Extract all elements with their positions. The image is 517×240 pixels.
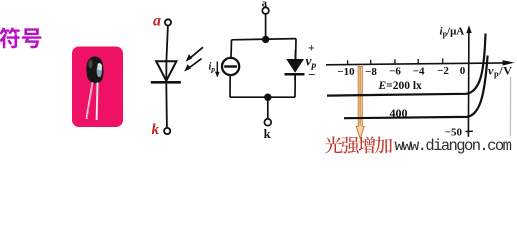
svg-text:k: k bbox=[152, 122, 160, 138]
label 光强增加 (light intensity increases) red bbox=[325, 136, 393, 153]
light intensity increase arrow (orange) bbox=[356, 67, 364, 139]
svg-text:a: a bbox=[262, 0, 268, 10]
x axis vp/V bbox=[326, 25, 515, 137]
leads bbox=[87, 83, 93, 120]
curve 400 bbox=[344, 56, 488, 119]
label 符号 (title "Symbol") bbox=[0, 28, 41, 49]
y axis ip/uA bbox=[467, 29, 470, 137]
svg-text:0: 0 bbox=[460, 65, 466, 77]
photodiode component photo (pink card) bbox=[72, 47, 123, 128]
junction dot top bbox=[262, 36, 269, 43]
photodiode symbol bbox=[151, 19, 181, 134]
wire anode to triangle bbox=[166, 26, 168, 61]
svg-text:−4: −4 bbox=[413, 65, 425, 77]
node a terminal bbox=[222, 7, 296, 125]
axis tick labels bbox=[337, 65, 465, 139]
curve E=200lx bbox=[327, 34, 486, 96]
svg-text:−8: −8 bbox=[365, 66, 377, 78]
faint page edge line bbox=[509, 77, 511, 136]
-50 tick bbox=[466, 130, 474, 132]
svg-text:vp/V: vp/V bbox=[488, 64, 512, 79]
svg-text:−10: −10 bbox=[337, 66, 355, 78]
wire a to top rail bbox=[265, 14, 267, 38]
svg-text:a: a bbox=[153, 13, 161, 30]
svg-text:−: − bbox=[308, 67, 315, 82]
label ip with down arrow bbox=[209, 62, 220, 78]
node k terminal bbox=[264, 119, 271, 126]
light arrow 2 bbox=[187, 59, 202, 70]
svg-text:k: k bbox=[264, 127, 271, 141]
wire through triangle bbox=[165, 61, 167, 81]
svg-text:E=200 lx: E=200 lx bbox=[378, 80, 423, 92]
light arrow 1 bbox=[184, 47, 203, 71]
bottom rail bbox=[230, 96, 295, 98]
epoxy dome body bbox=[86, 56, 103, 83]
right rail bbox=[295, 39, 296, 98]
wire bar to cathode terminal bbox=[165, 84, 168, 128]
current source circle bbox=[222, 58, 239, 75]
svg-text:400: 400 bbox=[390, 106, 408, 120]
cathode terminal bbox=[164, 128, 170, 134]
diode triangle bbox=[156, 61, 176, 81]
svg-text:−6: −6 bbox=[389, 66, 401, 78]
left rail bbox=[230, 40, 232, 97]
cathode bar bbox=[151, 81, 181, 84]
wire k from bottom rail bbox=[267, 97, 269, 119]
diode D (right branch) bbox=[285, 50, 305, 80]
anode terminal bbox=[165, 19, 171, 25]
x ticks bbox=[347, 60, 349, 64]
svg-text:www.diangon.com: www.diangon.com bbox=[395, 137, 512, 155]
svg-text:ip/μA: ip/μA bbox=[440, 25, 465, 38]
junction dot bottom bbox=[264, 94, 271, 101]
label + vp - bbox=[306, 43, 317, 82]
svg-text:−2: −2 bbox=[437, 65, 449, 77]
svg-text:ip: ip bbox=[209, 62, 216, 74]
top rail bbox=[232, 39, 297, 40]
